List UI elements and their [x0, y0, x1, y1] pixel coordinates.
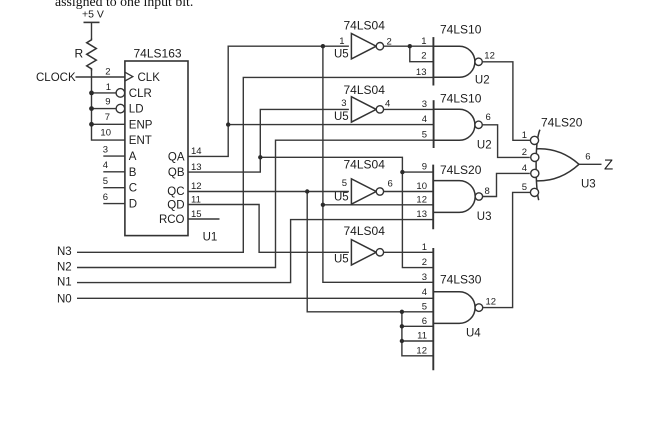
U1 A-D input stubs: [103, 156, 125, 204]
wire pull-up vertical to CLR/LD/ENP/ENT: [92, 69, 125, 140]
U1 right pin name labels: [159, 151, 185, 226]
U1 left pin numbers: [100, 67, 111, 203]
svg-text:5: 5: [522, 182, 527, 193]
svg-text:1: 1: [106, 82, 111, 93]
NAND U3b 74LS20 (DeMorgan OR with input bubbles): [522, 116, 596, 201]
svg-text:4: 4: [103, 160, 108, 171]
svg-text:ENT: ENT: [129, 135, 152, 147]
wire U5#2 output to U2 pin 3: [384, 108, 434, 110]
wire U5#3 output to U3 pin 10: [384, 191, 434, 193]
junction on pull-up at LD: [89, 106, 94, 111]
svg-text:6: 6: [103, 192, 108, 203]
wire U3a output to final pin 4: [483, 173, 530, 196]
svg-text:74LS20: 74LS20: [440, 163, 482, 177]
svg-text:74LS163: 74LS163: [134, 46, 182, 60]
NAND U2b 74LS10: [422, 91, 492, 151]
svg-text:74LS04: 74LS04: [344, 158, 386, 172]
svg-text:13: 13: [416, 67, 427, 78]
wire net QA: [188, 46, 434, 282]
svg-text:N3: N3: [57, 246, 72, 258]
svg-text:1: 1: [522, 130, 527, 141]
svg-text:11: 11: [191, 194, 201, 205]
svg-text:RCO: RCO: [159, 214, 185, 226]
svg-text:U5: U5: [334, 48, 349, 60]
svg-text:9: 9: [422, 162, 427, 173]
NAND U2a 74LS10: [416, 22, 495, 86]
wire RCO stub pin 15: [188, 218, 220, 220]
wire output Z: [579, 156, 613, 173]
svg-text:74LS30: 74LS30: [440, 273, 482, 287]
input N1: [57, 220, 433, 289]
wire U4 output to final pin 5: [483, 192, 531, 307]
svg-text:CLR: CLR: [129, 88, 152, 100]
svg-text:A: A: [129, 151, 137, 163]
svg-text:QC: QC: [167, 186, 184, 198]
svg-text:3: 3: [103, 144, 108, 155]
junction QA dropper / U3 pin12 feeder: [321, 203, 325, 207]
junction QA riser / U2 pin4 feeder: [226, 122, 230, 126]
svg-text:74LS04: 74LS04: [344, 18, 386, 32]
input N3: [57, 77, 433, 258]
svg-text:N2: N2: [57, 261, 72, 273]
wire net QC: [188, 192, 433, 356]
junction QA line / dropper: [321, 44, 325, 48]
svg-text:74LS20: 74LS20: [541, 116, 583, 130]
svg-text:U1: U1: [203, 232, 218, 244]
junction U4 pin6: [400, 324, 404, 328]
inverter U5 #3 74LS04: [334, 158, 393, 205]
svg-text:CLK: CLK: [138, 72, 161, 84]
wire U2a output to final pin 1: [482, 62, 530, 141]
junction on pull-up at CLR: [89, 91, 94, 96]
svg-text:U3: U3: [477, 211, 492, 223]
svg-text:assigned to one input bit.: assigned to one input bit.: [55, 0, 193, 9]
svg-text:B: B: [129, 167, 137, 179]
svg-text:2: 2: [522, 147, 527, 158]
svg-text:6: 6: [422, 316, 427, 327]
svg-text:74LS04: 74LS04: [344, 83, 386, 97]
inverter U5 #2 74LS04: [334, 83, 390, 123]
svg-text:5: 5: [103, 176, 108, 187]
svg-text:6: 6: [388, 178, 393, 189]
svg-text:R: R: [75, 47, 84, 61]
resistor R: [75, 38, 97, 71]
svg-text:U4: U4: [466, 327, 481, 339]
svg-text:13: 13: [191, 162, 202, 173]
junction inv1 out / pin2 drop: [408, 44, 412, 48]
svg-text:U5: U5: [334, 111, 349, 123]
U1 CLR bubble: [116, 89, 125, 98]
counter U1 74LS163 body: [125, 46, 217, 243]
svg-text:1: 1: [421, 36, 426, 47]
svg-text:13: 13: [416, 209, 427, 220]
+5 V supply: [82, 9, 104, 38]
svg-text:12: 12: [416, 194, 427, 205]
svg-text:74LS10: 74LS10: [440, 91, 482, 105]
svg-text:15: 15: [191, 209, 202, 220]
svg-text:4: 4: [422, 287, 427, 298]
U1 left pin name labels: [129, 72, 160, 211]
input N2: [57, 140, 434, 273]
wire U5#4 output to U4 pin 1: [384, 251, 434, 253]
NAND U4 74LS30: [416, 242, 496, 370]
svg-text:8: 8: [485, 186, 490, 197]
svg-text:N0: N0: [57, 294, 72, 306]
svg-text:2: 2: [421, 51, 426, 62]
svg-text:74LS10: 74LS10: [440, 22, 482, 36]
svg-text:U5: U5: [334, 191, 349, 203]
junction QC feeder / U4 pin5: [400, 310, 404, 314]
svg-text:12: 12: [484, 51, 495, 62]
svg-text:10: 10: [416, 181, 427, 192]
svg-text:3: 3: [341, 98, 346, 109]
NAND U3a 74LS20: [416, 162, 491, 230]
svg-text:9: 9: [105, 97, 110, 108]
svg-text:U3: U3: [581, 179, 596, 191]
svg-text:5: 5: [422, 130, 427, 141]
svg-text:D: D: [129, 199, 137, 211]
svg-text:QB: QB: [168, 167, 185, 179]
svg-text:QD: QD: [167, 199, 184, 211]
svg-text:+5 V: +5 V: [82, 9, 104, 21]
svg-text:12: 12: [416, 345, 427, 356]
svg-text:U2: U2: [477, 140, 492, 152]
junction QB dropper / U3 pin9: [400, 170, 404, 174]
wire net QD: [188, 205, 349, 253]
svg-text:5: 5: [342, 178, 347, 189]
svg-text:5: 5: [422, 301, 427, 312]
svg-text:74LS04: 74LS04: [344, 224, 386, 238]
svg-text:7: 7: [105, 112, 110, 123]
svg-text:Z: Z: [604, 156, 613, 173]
svg-text:12: 12: [486, 297, 497, 308]
svg-text:4: 4: [422, 114, 427, 125]
inverter U5 #4 74LS04: [334, 224, 385, 266]
svg-text:U2: U2: [475, 74, 490, 86]
svg-text:10: 10: [100, 127, 111, 138]
svg-text:3: 3: [422, 99, 427, 110]
svg-text:CLOCK: CLOCK: [36, 72, 76, 84]
U1 LD bubble: [116, 104, 125, 113]
svg-text:U5: U5: [334, 254, 349, 266]
wire net QB: [188, 109, 433, 267]
input N0: [57, 294, 433, 306]
U1 right pin numbers: [191, 146, 202, 220]
junction U4 pin11: [400, 339, 404, 343]
CLOCK input: [36, 72, 125, 84]
junction QC line / dropper: [305, 189, 309, 193]
wire U5#1 output to U2 pins 1,2: [384, 46, 434, 62]
svg-text:N1: N1: [57, 276, 72, 288]
wire U2b output to final pin 2: [482, 125, 530, 158]
svg-text:2: 2: [422, 257, 427, 268]
junction QB riser / branch: [258, 155, 262, 159]
svg-text:3: 3: [422, 272, 427, 283]
svg-text:4: 4: [385, 98, 390, 109]
inverter U5 #1 74LS04: [334, 18, 392, 60]
svg-text:12: 12: [191, 181, 202, 192]
svg-text:ENP: ENP: [129, 119, 153, 131]
svg-text:11: 11: [417, 331, 427, 342]
svg-text:1: 1: [422, 242, 427, 253]
svg-text:6: 6: [585, 152, 590, 163]
svg-text:4: 4: [522, 163, 527, 174]
svg-text:LD: LD: [129, 104, 144, 116]
svg-text:14: 14: [191, 146, 202, 157]
svg-text:C: C: [129, 183, 137, 195]
svg-text:1: 1: [339, 36, 344, 47]
svg-text:2: 2: [105, 67, 110, 78]
svg-text:6: 6: [486, 112, 491, 123]
svg-text:QA: QA: [168, 151, 185, 163]
junction on pull-up at ENP: [89, 122, 94, 127]
